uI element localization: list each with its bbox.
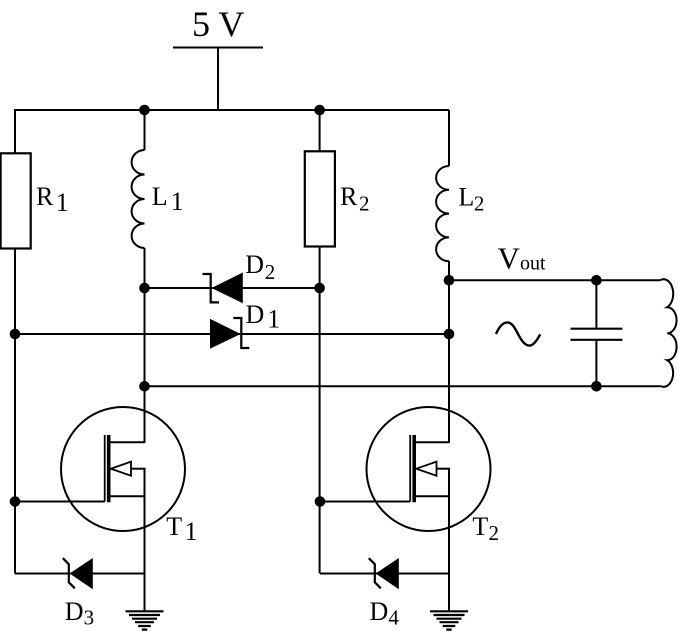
svg-text:D: D — [65, 597, 84, 626]
svg-text:D: D — [246, 300, 265, 329]
svg-text:2: 2 — [474, 191, 485, 215]
svg-text:V: V — [498, 240, 521, 275]
svg-text:2: 2 — [265, 260, 276, 284]
svg-text:1: 1 — [267, 305, 280, 334]
svg-text:D: D — [370, 597, 389, 626]
svg-text:L: L — [152, 182, 168, 211]
svg-text:D: D — [245, 250, 264, 279]
svg-text:L: L — [458, 183, 474, 212]
svg-text:T: T — [166, 512, 182, 541]
svg-text:R: R — [36, 182, 54, 211]
svg-text:out: out — [520, 253, 546, 275]
svg-text:4: 4 — [388, 605, 399, 629]
svg-text:T: T — [472, 512, 488, 541]
svg-text:3: 3 — [84, 605, 95, 629]
svg-text:R: R — [340, 182, 358, 211]
svg-text:1: 1 — [56, 188, 69, 217]
svg-text:5 V: 5 V — [192, 4, 244, 44]
svg-text:2: 2 — [359, 192, 370, 216]
svg-text:1: 1 — [171, 187, 184, 216]
svg-text:1: 1 — [185, 517, 198, 546]
svg-text:2: 2 — [489, 521, 500, 545]
